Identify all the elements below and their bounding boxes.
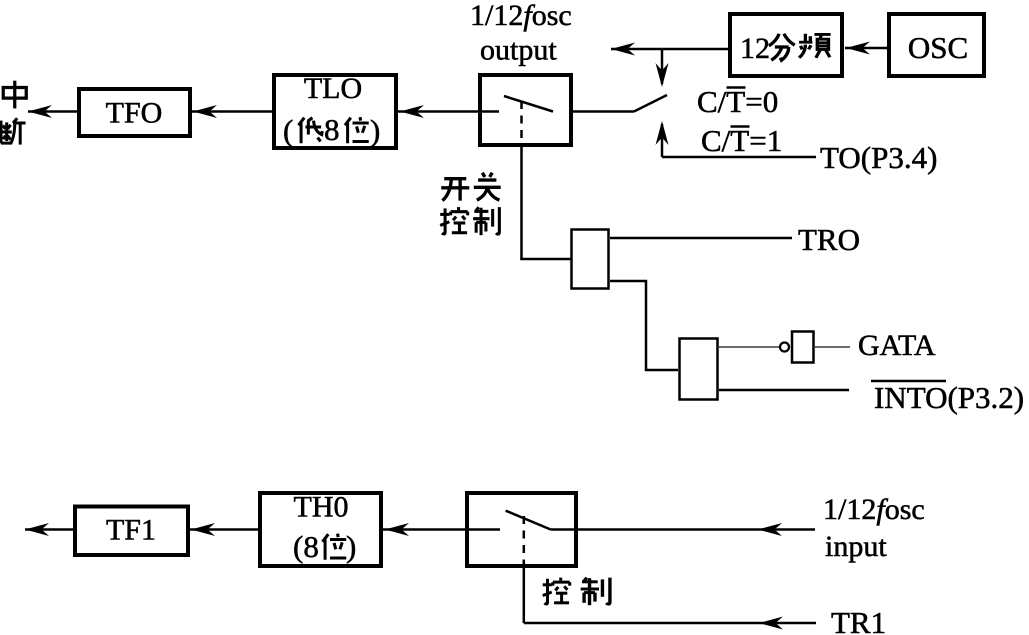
- svg-text:output: output: [480, 34, 557, 67]
- svg-text:TFO: TFO: [106, 97, 163, 130]
- svg-text:C/T=0: C/T=0: [697, 84, 778, 119]
- svg-text:TO(P3.4): TO(P3.4): [820, 140, 937, 175]
- svg-text:OSC: OSC: [908, 30, 968, 65]
- svg-text:INTO(P3.2): INTO(P3.2): [874, 380, 1024, 415]
- svg-text:1/12fosc: 1/12fosc: [823, 493, 925, 526]
- svg-text:(8: (8: [293, 529, 319, 564]
- svg-text:1/12fosc: 1/12fosc: [470, 0, 572, 32]
- svg-text:TLO: TLO: [304, 72, 362, 105]
- svg-text:TRO: TRO: [798, 222, 860, 257]
- svg-text:C/T=1: C/T=1: [701, 123, 782, 158]
- svg-text:12: 12: [740, 32, 770, 65]
- svg-text:): ): [346, 529, 356, 564]
- svg-text:GATA: GATA: [858, 329, 936, 362]
- svg-text:TR1: TR1: [831, 605, 886, 635]
- svg-text:TF1: TF1: [106, 514, 156, 547]
- svg-text:): ): [370, 113, 380, 148]
- svg-text:(: (: [283, 113, 293, 148]
- svg-text:input: input: [825, 530, 887, 563]
- svg-text:TH0: TH0: [294, 491, 349, 524]
- svg-text:8: 8: [324, 112, 340, 147]
